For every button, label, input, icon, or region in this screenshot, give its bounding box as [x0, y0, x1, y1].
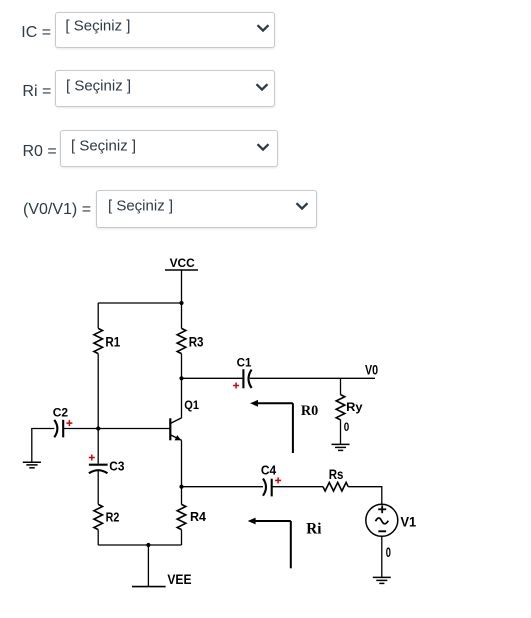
capacitor C3 — [89, 465, 108, 474]
wire emitter — [181, 440, 183, 486]
wire Ry to ground — [340, 420, 342, 445]
C3 plus mark — [89, 455, 95, 461]
node: top rail junction — [179, 301, 183, 305]
svg-text:V0: V0 — [365, 361, 378, 377]
svg-text:Rs: Rs — [329, 466, 344, 482]
wire C2 to ground — [32, 429, 55, 463]
wire emitter node to R4 — [181, 487, 183, 505]
form row 2: Ri dropdown — [55, 70, 275, 107]
svg-text:C2: C2 — [53, 405, 69, 419]
node: bottom rail junction — [146, 543, 150, 547]
node: collector junction — [179, 376, 183, 380]
wire top rail — [98, 302, 181, 304]
wire R3 to collector node — [181, 354, 183, 379]
resistor R3 — [177, 328, 186, 353]
C2 plus mark — [66, 420, 72, 426]
wire C3 to R2 — [97, 471, 99, 504]
wire base — [63, 428, 170, 430]
form row 3: R0 label — [23, 144, 57, 160]
capacitor C2 — [54, 420, 63, 438]
wire rail to R3 — [181, 303, 183, 328]
wire R4 to bottom rail — [181, 530, 183, 545]
wire V1 to ground — [381, 536, 383, 577]
svg-text:V1: V1 — [401, 513, 417, 529]
wire emitter to C4 — [182, 486, 264, 488]
svg-text:0: 0 — [386, 544, 391, 560]
resistor Rs — [323, 482, 348, 491]
form row 1: IC label — [21, 25, 51, 41]
resistor R4 — [177, 504, 186, 529]
wire VEE stem — [147, 545, 149, 587]
capacitor C1 — [243, 369, 251, 388]
svg-text:Q1: Q1 — [184, 398, 199, 412]
VCC supply bar — [165, 269, 198, 271]
resistor R2 — [94, 504, 103, 529]
form row 3: R0 dropdown — [60, 130, 279, 167]
form row 1: IC dropdown — [55, 12, 275, 48]
wire collector — [181, 378, 183, 418]
svg-text:VEE: VEE — [167, 572, 191, 587]
transistor Q1 — [170, 418, 181, 441]
C1 plus mark — [233, 383, 239, 389]
Ri measurement arrow — [248, 518, 291, 569]
svg-text:Ry: Ry — [346, 401, 363, 414]
ground (C2) — [23, 462, 41, 468]
node: emitter junction — [179, 485, 183, 489]
wire R2 to bottom rail — [97, 530, 99, 545]
wire C4 to Rs — [272, 486, 323, 488]
svg-text:Ri: Ri — [306, 521, 322, 538]
svg-text:VCC: VCC — [170, 256, 196, 270]
svg-text:R1: R1 — [105, 334, 120, 349]
resistor R1 — [94, 328, 103, 353]
wire rail to R1 — [97, 303, 99, 328]
svg-text:C4: C4 — [261, 462, 277, 477]
wire collector node to C1 — [182, 377, 243, 379]
svg-text:R0: R0 — [301, 403, 318, 419]
svg-text:R2: R2 — [106, 510, 120, 525]
wire Ry drop — [340, 378, 342, 394]
wire bottom rail — [98, 544, 181, 546]
VEE terminal bar — [132, 586, 166, 588]
wire VCC to top rail — [181, 270, 183, 303]
form row 2: Ri label — [22, 84, 51, 100]
source V1 — [366, 504, 398, 536]
form row 4: (V0/V1) label — [23, 202, 91, 218]
wire R1 to base node — [97, 354, 99, 429]
wire C1 to V0 — [250, 377, 375, 379]
wire base node to C3 — [97, 429, 99, 464]
svg-text:0: 0 — [344, 420, 350, 434]
capacitor C4 — [263, 479, 272, 497]
wire Rs to V1 — [348, 487, 382, 505]
node: base junction — [96, 426, 100, 430]
ground (Ry) — [332, 444, 350, 450]
R0 measurement arrow — [250, 400, 293, 453]
C4 plus mark — [275, 477, 281, 483]
svg-text:R4: R4 — [190, 509, 207, 524]
svg-text:R3: R3 — [189, 334, 204, 349]
resistor Ry — [336, 395, 345, 420]
svg-text:C1: C1 — [237, 355, 252, 369]
form row 4: (V0/V1) dropdown — [96, 190, 317, 228]
svg-text:C3: C3 — [109, 459, 124, 474]
ground (V1) — [373, 577, 391, 583]
